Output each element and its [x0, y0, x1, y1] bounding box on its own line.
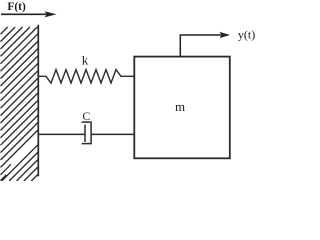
svg-text:k: k [82, 52, 89, 67]
svg-text:F(t): F(t) [7, 1, 26, 13]
svg-text:C: C [82, 109, 90, 123]
svg-text:m: m [175, 99, 185, 114]
svg-text:y(t): y(t) [238, 27, 255, 41]
